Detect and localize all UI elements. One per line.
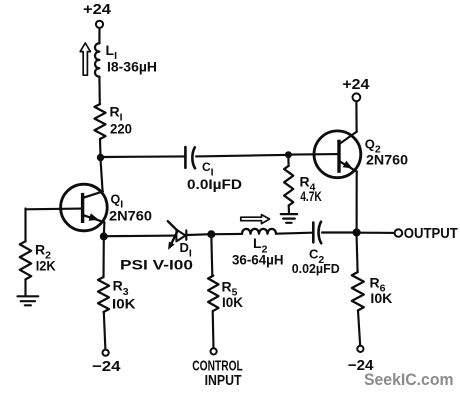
wire Q2 emitter down to output node [356,171,358,232]
junction node D (Q1 emitter/D1/R3) [100,232,108,240]
svg-text:0.02µFD: 0.02µFD [292,261,340,276]
wire R2 to ground [24,279,26,295]
svg-text:4.7K: 4.7K [300,188,322,204]
wire node E to L2 [215,233,242,235]
transistor Q1 collector lead [83,191,103,197]
svg-text:I0K: I0K [112,296,136,312]
wire node A to C1 [103,155,184,158]
wire R4 to ground [288,206,290,214]
svg-text:2N760: 2N760 [366,152,408,168]
diode D1 control arrow upper stroke [168,221,178,230]
svg-text:+24: +24 [342,77,369,93]
diode D1 triangle [176,230,185,242]
svg-text:36-64µH: 36-64µH [232,252,284,268]
junction node C (Q2 emitter/C2/R6/output) [353,228,361,236]
diode D1 cathode bar [185,231,187,240]
wire node C to output terminal [361,232,395,234]
svg-text:0.0IµFD: 0.0IµFD [187,176,242,192]
wire C2 to node C [322,231,353,233]
capacitor C2 left plate [312,223,315,243]
wire R5 to control terminal [212,311,215,349]
tuning arrow for L2 (points right) [241,215,270,224]
transistor Q1 circle [61,184,108,231]
terminal OUTPUT [395,229,403,237]
terminal +24 (top left) [96,21,103,28]
capacitor C2 right plate (curved) [319,222,322,244]
wire Q1 emitter to node D [103,222,106,236]
inductor L2 coil [242,229,276,234]
junction node B (C1/R4/Q2 base) [285,151,292,158]
inductor L1 coil [95,43,99,76]
diode D1 control arrow lower stroke [171,232,177,245]
svg-text:I0K: I0K [370,290,392,306]
svg-text:I2K: I2K [36,258,56,274]
svg-text:INPUT: INPUT [205,373,242,389]
wire C1 to node B [196,155,285,157]
wire node B to R4 [287,158,289,167]
wire L2 to C2 [276,233,312,234]
ground symbol below R4 [281,214,297,223]
junction node E (D1/R5/L2) [207,230,215,238]
transistor Q2 emitter lead [340,161,357,171]
wire terminal to L1 [98,28,100,43]
svg-text:+24: +24 [83,2,111,18]
svg-text:−24: −24 [92,359,121,375]
resistor R6 zigzag [352,272,364,311]
terminal -24 (bottom left) [103,350,109,356]
wire node C to R6 [357,237,358,273]
transistor Q1 base bar [81,193,84,223]
svg-text:SeekIC.com: SeekIC.com [364,370,454,389]
resistor R3 zigzag [98,277,109,312]
wire D1 cathode to node E [187,233,208,236]
wire node E to R5 [210,238,213,276]
svg-text:PSI V-I00: PSI V-I00 [120,257,193,273]
resistor R1 zigzag [95,104,106,139]
wire +24 terminal to Q2 collector [355,101,357,132]
terminal +24 (top right) [353,93,361,101]
wire node A down to Q1 collector [101,161,103,192]
svg-text:OUTPUT: OUTPUT [404,226,458,242]
wire Q1 base lead [26,208,83,211]
transistor Q2 emitter arrowhead [343,161,353,169]
svg-text:220: 220 [110,121,132,137]
wire L1 to R1 [98,77,101,105]
terminal CONTROL INPUT [211,348,217,354]
transistor Q1 emitter arrowhead [89,213,99,221]
transistor Q1 emitter lead [83,215,104,222]
terminal -24 (bottom right) [357,346,363,352]
capacitor C1 right plate (curved) [192,147,195,168]
svg-text:I8-36µH: I8-36µH [107,59,157,75]
junction node A (R1/C1/Q1 collector) [97,154,104,161]
wire R3 to -24 terminal [104,312,106,350]
wire node B to Q2 base [292,153,338,156]
wire node D to R3 [102,240,104,278]
svg-text:I0K: I0K [222,294,243,310]
transistor Q2 collector lead [340,132,357,144]
tuning arrow for L1 (points up) [80,43,90,75]
wire node D to D1 anode [107,235,176,238]
wire base corner down to R2 [24,209,26,242]
capacitor C1 left plate [184,147,187,168]
diode D1 control arrowhead [168,242,175,250]
wire R6 to -24 terminal [358,311,360,346]
svg-text:2N760: 2N760 [109,208,152,224]
resistor R2 zigzag [20,241,31,279]
wire R1 to node A [99,139,102,158]
ground symbol below R2 [18,296,39,305]
resistor R5 zigzag [208,276,218,311]
resistor R4 zigzag [284,166,293,206]
transistor Q2 circle [314,131,361,178]
transistor Q2 base bar [337,140,340,173]
